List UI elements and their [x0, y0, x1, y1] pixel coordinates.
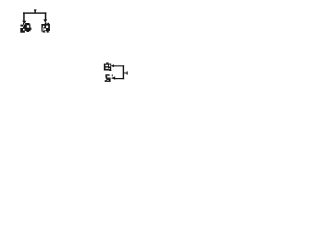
component icon right (dense glyph with holes) [41, 23, 50, 33]
component icon bottom-right upper [104, 63, 112, 72]
arrowhead into right component [43, 19, 47, 22]
wire lower horizontal [115, 78, 124, 79]
wire right drop [45, 12, 47, 20]
wire left drop [23, 12, 25, 21]
node terminal stub right [124, 71, 128, 74]
arrowhead into lower component [111, 76, 115, 79]
wire upper horizontal [114, 65, 125, 66]
arrowhead into left component [22, 21, 26, 25]
arrowhead into upper component [111, 64, 114, 67]
wire top rail [23, 12, 46, 13]
component icon bottom-right lower [105, 74, 113, 82]
wire right vertical [123, 65, 124, 79]
node terminal stub top [34, 9, 37, 12]
component icon left (dense glyph with holes) [20, 23, 31, 33]
